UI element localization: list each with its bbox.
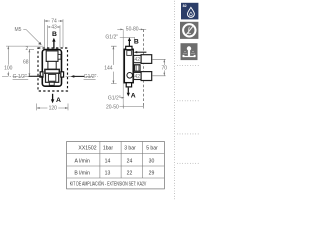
svg-text:KIT DE AMPLIACIÓN - EXTENSION: KIT DE AMPLIACIÓN - EXTENSION SET: KA2V xyxy=(70,181,147,188)
svg-text:14: 14 xyxy=(105,159,111,165)
svg-text:5 bar: 5 bar xyxy=(146,146,158,152)
G1/2 top label xyxy=(105,34,134,40)
svg-text:13: 13 xyxy=(105,171,111,177)
svg-text:70: 70 xyxy=(162,66,168,72)
G1/2 bottom label with arrow xyxy=(108,96,125,102)
finished wall dashed line xyxy=(143,29,145,108)
lower handle square xyxy=(141,72,152,81)
middle connector xyxy=(133,65,140,71)
svg-text:42: 42 xyxy=(135,74,141,80)
svg-text:A l/min: A l/min xyxy=(75,159,90,165)
svg-text:30: 30 xyxy=(149,159,155,165)
upper handle square xyxy=(141,55,152,64)
dimension 2 xyxy=(26,46,34,52)
dotted cell separators xyxy=(177,65,199,164)
icon built-in diverter xyxy=(181,43,198,60)
lower assembly xyxy=(46,73,59,82)
svg-text:29: 29 xyxy=(149,171,155,177)
cartridge xyxy=(46,51,58,62)
svg-text:3 bar: 3 bar xyxy=(124,146,136,152)
svg-text:M5: M5 xyxy=(15,27,22,33)
svg-text:20-50: 20-50 xyxy=(106,105,119,111)
svg-text:43: 43 xyxy=(51,25,57,31)
lower 42 box xyxy=(134,72,142,79)
svg-text:A: A xyxy=(56,97,61,104)
arrow A right view xyxy=(127,88,136,100)
dimension 43 xyxy=(48,25,60,48)
icon cold start xyxy=(180,22,198,39)
svg-text:68: 68 xyxy=(23,60,29,66)
dimension 70 xyxy=(152,59,167,76)
bottom tab xyxy=(49,82,54,85)
dimension 50-80 xyxy=(117,26,146,32)
left port stub xyxy=(40,72,43,77)
bottom pipe stub xyxy=(126,83,131,87)
top inner hole xyxy=(127,51,132,56)
svg-text:24: 24 xyxy=(127,159,133,165)
label M5 with leader xyxy=(15,27,42,45)
svg-text:100: 100 xyxy=(4,66,13,72)
arrow A (outlet down) xyxy=(51,94,61,104)
valve body xyxy=(42,50,61,87)
top port xyxy=(126,46,132,49)
svg-text:50-80: 50-80 xyxy=(126,26,139,32)
lower assembly band xyxy=(45,69,59,73)
svg-text:A: A xyxy=(131,92,136,99)
upper 42 box xyxy=(134,55,142,63)
cartridge circle xyxy=(127,73,133,79)
rough wall line xyxy=(122,29,124,108)
dashed installation box xyxy=(38,48,68,91)
side body column xyxy=(124,49,133,82)
lower inner rect xyxy=(48,74,55,81)
svg-text:22: 22 xyxy=(127,171,133,177)
svg-text:XX1502: XX1502 xyxy=(78,146,96,152)
svg-text:G1/2": G1/2" xyxy=(105,34,118,40)
svg-text:42: 42 xyxy=(135,57,141,63)
right port stub xyxy=(61,72,64,77)
dimension 100 xyxy=(4,46,43,76)
svg-text:G1/2": G1/2" xyxy=(108,96,121,102)
stem xyxy=(48,61,56,69)
svg-text:82: 82 xyxy=(183,4,187,8)
dimension 120 xyxy=(37,104,68,112)
cartridge tab xyxy=(58,54,61,59)
svg-text:144: 144 xyxy=(104,66,113,72)
G 1/2 right label xyxy=(71,74,97,80)
centerline xyxy=(2,75,98,77)
arrow B right view xyxy=(128,37,139,48)
svg-text:2: 2 xyxy=(26,46,29,52)
dimension 144 xyxy=(104,46,116,83)
dimension 20-50 xyxy=(106,105,144,111)
svg-text:74: 74 xyxy=(51,19,57,25)
dotted separator vertical xyxy=(173,1,176,199)
arrow B (outlet up) xyxy=(52,31,57,48)
svg-text:B: B xyxy=(134,38,139,45)
upper bold line with left arrow xyxy=(134,51,147,53)
icon water saving xyxy=(181,3,198,20)
svg-text:1bar: 1bar xyxy=(103,146,113,152)
dimension 74 xyxy=(44,19,63,48)
svg-text:B l/min: B l/min xyxy=(74,171,90,177)
G 1/2 left label xyxy=(13,74,43,80)
dimension 68 xyxy=(23,49,30,76)
svg-text:120: 120 xyxy=(49,106,58,112)
svg-text:B: B xyxy=(52,31,57,38)
